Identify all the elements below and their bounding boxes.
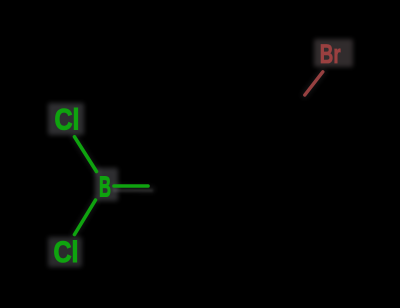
label halo B (95, 168, 118, 201)
benzene inner double bond C6-C1 (192, 188, 217, 231)
bond B-Cl (lower) green (75, 200, 96, 235)
wire: carbon half of B-C1 bond (148, 184, 178, 187)
benzene ring (carbon skeleton, black on black) (182, 132, 306, 239)
bond B-Cl (upper) green (75, 137, 97, 172)
benzene inner double bond C2-C3 (219, 140, 269, 143)
bond B-C1 boron half, green (114, 184, 148, 188)
svg-text:Cl: Cl (55, 104, 80, 137)
bond glow artifacts (74, 72, 323, 235)
artifact band under B-C1 bond (113, 189, 153, 192)
svg-text:Br: Br (320, 39, 341, 69)
label halo Br (314, 39, 353, 67)
wire: carbon half of C3-Br bond (275, 95, 305, 132)
svg-text:B: B (99, 172, 111, 204)
benzene inner double bond C4-C5 (271, 188, 296, 231)
label halo Cl top (48, 103, 84, 135)
bond C3-Br bromine half, dark red (305, 72, 323, 95)
svg-text:Cl: Cl (54, 236, 79, 269)
label halo Cl bottom (48, 237, 82, 267)
